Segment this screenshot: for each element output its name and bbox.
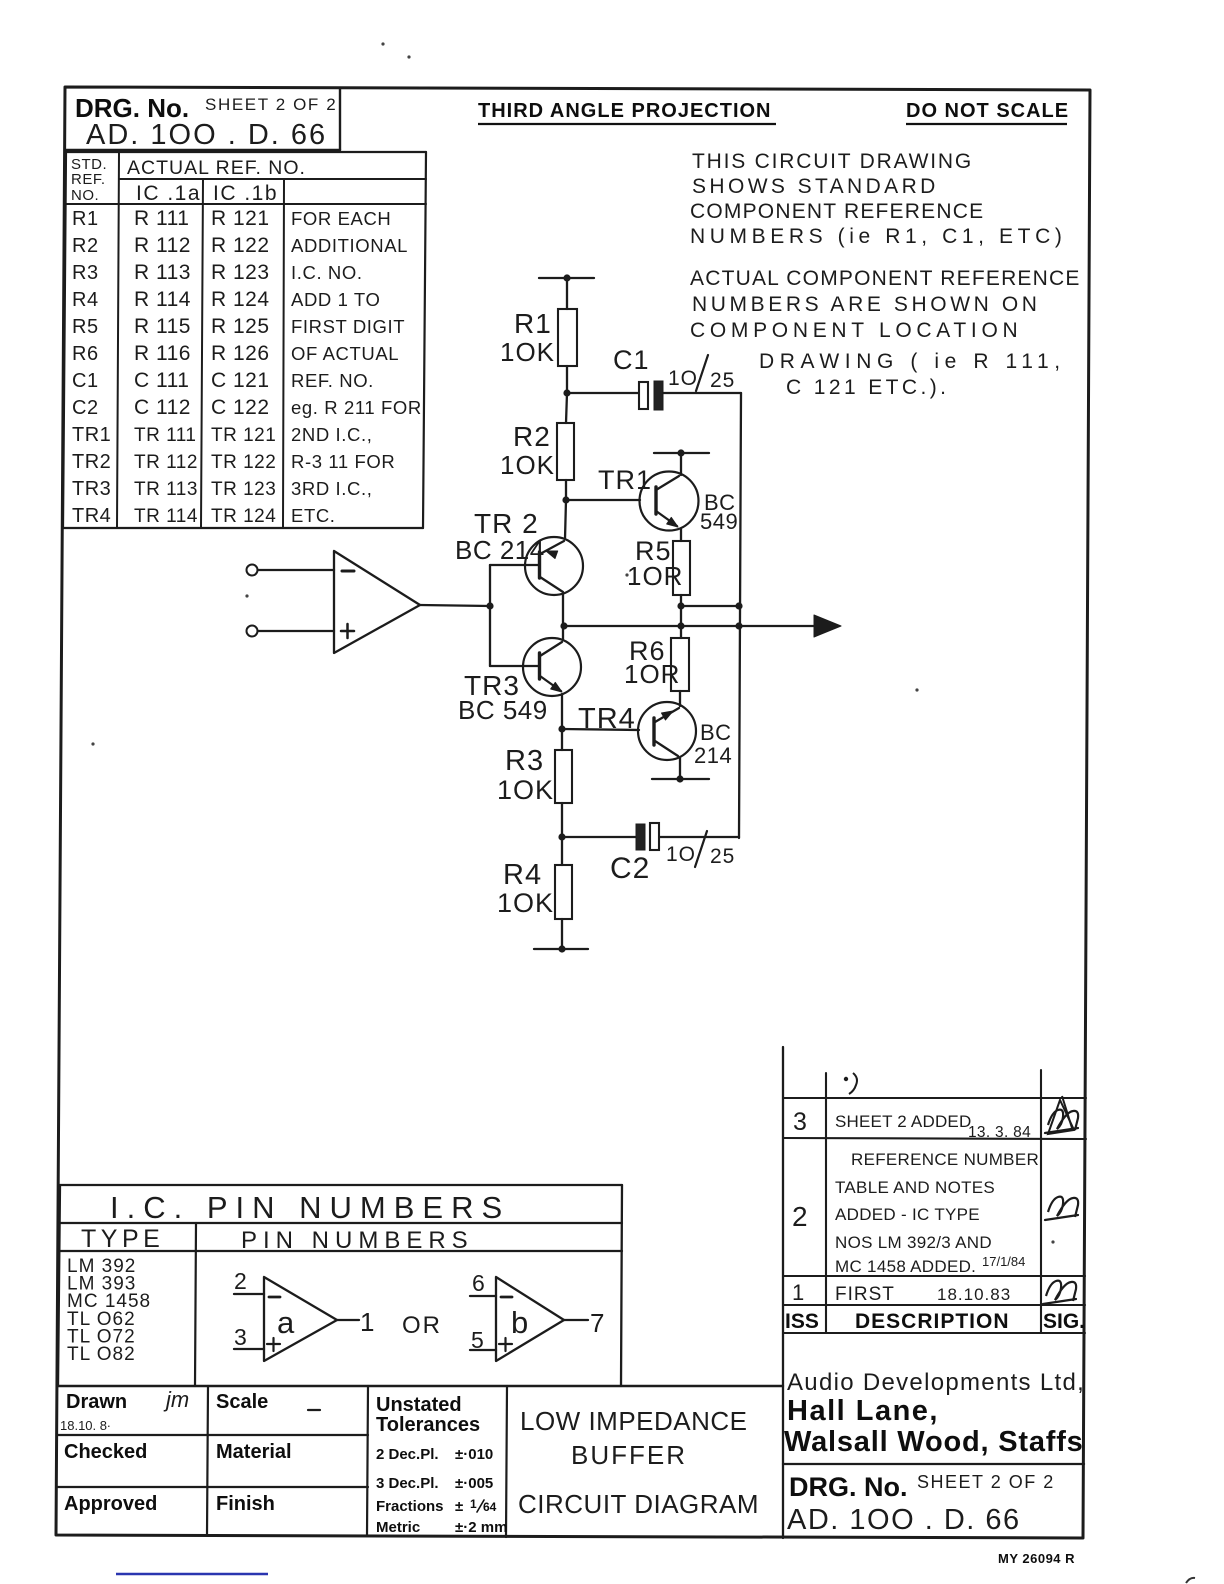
svg-text:SHEET 2 OF 2: SHEET 2 OF 2 — [205, 95, 337, 114]
svg-text:R 113: R 113 — [134, 261, 191, 284]
svg-text:R5: R5 — [72, 316, 99, 338]
svg-text:SHOWS STANDARD: SHOWS STANDARD — [692, 175, 939, 198]
svg-text:±·010: ±·010 — [455, 1446, 493, 1463]
svg-text:549: 549 — [700, 509, 738, 534]
svg-text:18.10. 8·: 18.10. 8· — [60, 1418, 111, 1433]
svg-text:ADDED - IC TYPE: ADDED - IC TYPE — [835, 1205, 980, 1224]
svg-text:R4: R4 — [72, 289, 99, 311]
svg-text:±: ± — [455, 1498, 463, 1515]
svg-text:R 124: R 124 — [211, 288, 270, 311]
svg-text:b: b — [511, 1305, 528, 1340]
svg-text:C 121: C 121 — [211, 369, 270, 392]
svg-text:R 112: R 112 — [134, 234, 191, 257]
svg-text:FIRST: FIRST — [835, 1284, 895, 1305]
svg-text:SHEET 2 OF 2: SHEET 2 OF 2 — [917, 1472, 1055, 1492]
svg-text:25: 25 — [710, 369, 735, 392]
svg-text:1O: 1O — [668, 367, 698, 390]
svg-text:1: 1 — [792, 1280, 804, 1305]
svg-text:C2: C2 — [610, 852, 650, 885]
svg-text:1O: 1O — [666, 843, 696, 866]
svg-text:1OK: 1OK — [497, 775, 554, 805]
svg-text:NUMBERS (ie R1, C1, ETC): NUMBERS (ie R1, C1, ETC) — [690, 225, 1066, 248]
svg-text:NOS LM 392/3 AND: NOS LM 392/3 AND — [835, 1233, 992, 1252]
svg-text:214: 214 — [694, 743, 732, 768]
svg-text:1OR: 1OR — [627, 561, 683, 591]
svg-text:REF. NO.: REF. NO. — [291, 370, 374, 391]
svg-text:R 125: R 125 — [211, 315, 270, 338]
svg-text:R 121: R 121 — [211, 207, 270, 230]
svg-text:TR1: TR1 — [598, 465, 652, 495]
svg-text:R 123: R 123 — [211, 261, 270, 284]
svg-text:1OK: 1OK — [500, 450, 555, 480]
svg-text:R-3 11 FOR: R-3 11 FOR — [291, 451, 395, 472]
svg-text:IC .1a: IC .1a — [136, 182, 201, 205]
svg-text:PIN NUMBERS: PIN NUMBERS — [241, 1227, 474, 1254]
svg-text:OR: OR — [402, 1312, 442, 1339]
svg-text:BC 549: BC 549 — [458, 695, 548, 725]
svg-text:TR 114: TR 114 — [134, 506, 198, 527]
svg-text:R3: R3 — [505, 745, 544, 777]
svg-text:2 Dec.Pl.: 2 Dec.Pl. — [376, 1446, 439, 1463]
svg-text:7: 7 — [590, 1308, 604, 1338]
svg-text:FOR EACH: FOR EACH — [291, 208, 391, 229]
svg-text:Hall Lane,: Hall Lane, — [787, 1395, 939, 1427]
svg-text:MY 26094 R: MY 26094 R — [998, 1551, 1075, 1566]
svg-text:R1: R1 — [72, 208, 99, 230]
svg-text:ADD 1 TO: ADD 1 TO — [291, 289, 380, 310]
svg-text:BC: BC — [700, 720, 732, 745]
svg-text:C 121 ETC.).: C 121 ETC.). — [786, 376, 949, 399]
svg-text:CIRCUIT DIAGRAM: CIRCUIT DIAGRAM — [518, 1489, 759, 1519]
svg-text:R 116: R 116 — [134, 342, 191, 365]
svg-text:I.C. NO.: I.C. NO. — [291, 262, 363, 283]
svg-text:TR 112: TR 112 — [134, 452, 198, 473]
svg-text:ADDITIONAL: ADDITIONAL — [291, 235, 408, 256]
svg-text:17/1/84: 17/1/84 — [982, 1254, 1025, 1269]
svg-text:ACTUAL REF. NO.: ACTUAL REF. NO. — [127, 157, 306, 179]
svg-text:Metric: Metric — [376, 1519, 420, 1536]
svg-text:25: 25 — [710, 845, 735, 868]
svg-text:3RD I.C.,: 3RD I.C., — [291, 478, 372, 499]
svg-text:OF ACTUAL: OF ACTUAL — [291, 343, 399, 364]
svg-text:Drawn: Drawn — [66, 1391, 127, 1413]
svg-text:3 Dec.Pl.: 3 Dec.Pl. — [376, 1475, 439, 1492]
svg-text:SIG.: SIG. — [1043, 1310, 1085, 1333]
svg-text:TR 111: TR 111 — [134, 425, 197, 446]
svg-text:AD. 1OO . D. 66: AD. 1OO . D. 66 — [86, 119, 327, 151]
svg-text:C 122: C 122 — [211, 396, 270, 419]
svg-text:R 111: R 111 — [134, 207, 189, 230]
svg-text:TR4: TR4 — [578, 703, 636, 735]
svg-text:TR2: TR2 — [72, 451, 111, 473]
svg-text:5: 5 — [471, 1327, 484, 1353]
svg-text:Finish: Finish — [216, 1493, 275, 1515]
svg-text:IC .1b: IC .1b — [213, 182, 278, 205]
svg-text:1OK: 1OK — [497, 888, 554, 918]
svg-text:1OR: 1OR — [624, 659, 680, 689]
svg-text:Unstated: Unstated — [376, 1394, 462, 1416]
svg-text:SHEET 2 ADDED: SHEET 2 ADDED — [835, 1112, 971, 1131]
svg-text:C 111: C 111 — [134, 369, 189, 392]
svg-text:Audio Developments Ltd,: Audio Developments Ltd, — [787, 1369, 1085, 1396]
svg-text:18.10.83: 18.10.83 — [937, 1285, 1011, 1304]
svg-text:a: a — [277, 1305, 295, 1340]
svg-text:R3: R3 — [72, 262, 99, 284]
svg-text:C2: C2 — [72, 397, 99, 419]
svg-text:ISS: ISS — [785, 1310, 819, 1333]
svg-text:DESCRIPTION: DESCRIPTION — [855, 1310, 1010, 1333]
svg-text:R 122: R 122 — [211, 234, 270, 257]
svg-text:BC 214: BC 214 — [455, 535, 545, 565]
svg-text:COMPONENT REFERENCE: COMPONENT REFERENCE — [690, 200, 984, 223]
svg-text:AD. 1OO . D. 66: AD. 1OO . D. 66 — [787, 1504, 1021, 1536]
svg-text:Walsall Wood, Staffs: Walsall Wood, Staffs — [784, 1426, 1084, 1458]
svg-text:64: 64 — [483, 1500, 497, 1514]
svg-text:1OK: 1OK — [500, 337, 555, 367]
svg-text:TL O82: TL O82 — [67, 1344, 136, 1365]
svg-text:jm: jm — [163, 1387, 189, 1412]
svg-text:THIS CIRCUIT DRAWING: THIS CIRCUIT DRAWING — [692, 150, 973, 173]
svg-text:MC 1458 ADDED.: MC 1458 ADDED. — [835, 1257, 976, 1276]
svg-text:ACTUAL COMPONENT REFERENCE: ACTUAL COMPONENT REFERENCE — [690, 267, 1081, 290]
svg-text:R 114: R 114 — [134, 288, 191, 311]
svg-text:R 126: R 126 — [211, 342, 270, 365]
svg-text:DO NOT SCALE: DO NOT SCALE — [906, 100, 1069, 122]
svg-text:±·005: ±·005 — [455, 1475, 493, 1492]
svg-text:DRAWING ( ie R 111,: DRAWING ( ie R 111, — [759, 350, 1066, 373]
svg-text:NUMBERS ARE SHOWN ON: NUMBERS ARE SHOWN ON — [692, 293, 1041, 316]
svg-text:R2: R2 — [72, 235, 99, 257]
svg-text:R1: R1 — [514, 308, 552, 339]
svg-text:R4: R4 — [503, 859, 542, 891]
svg-text:1: 1 — [360, 1307, 374, 1337]
svg-text:TR 121: TR 121 — [211, 425, 276, 446]
svg-text:Checked: Checked — [64, 1441, 147, 1463]
svg-text:Fractions: Fractions — [376, 1498, 444, 1515]
svg-text:ETC.: ETC. — [291, 505, 336, 526]
svg-text:TR 123: TR 123 — [211, 479, 276, 500]
svg-text:±·2 mm: ±·2 mm — [455, 1519, 507, 1536]
svg-text:R6: R6 — [72, 343, 99, 365]
svg-text:REFERENCE NUMBER: REFERENCE NUMBER — [851, 1150, 1039, 1169]
svg-text:R 115: R 115 — [134, 315, 191, 338]
svg-text:Tolerances: Tolerances — [376, 1414, 480, 1436]
svg-text:TABLE AND NOTES: TABLE AND NOTES — [835, 1178, 995, 1197]
svg-text:Scale: Scale — [216, 1391, 268, 1413]
svg-text:2: 2 — [792, 1201, 808, 1232]
svg-text:NO.: NO. — [71, 187, 99, 204]
svg-text:TR 124: TR 124 — [211, 506, 276, 527]
svg-text:eg. R 211 FOR: eg. R 211 FOR — [291, 397, 422, 418]
svg-text:C1: C1 — [72, 370, 99, 392]
svg-text:TYPE: TYPE — [81, 1225, 164, 1253]
svg-text:Material: Material — [216, 1441, 292, 1463]
svg-text:TR 113: TR 113 — [134, 479, 198, 500]
svg-text:13. 3. 84: 13. 3. 84 — [968, 1124, 1031, 1141]
svg-text:C1: C1 — [613, 345, 650, 375]
svg-text:REF.: REF. — [71, 171, 106, 188]
svg-text:TR 122: TR 122 — [211, 452, 276, 473]
svg-text:FIRST DIGIT: FIRST DIGIT — [291, 316, 405, 337]
svg-text:3: 3 — [234, 1324, 247, 1350]
svg-text:R2: R2 — [513, 421, 551, 452]
svg-text:TR3: TR3 — [72, 478, 111, 500]
svg-text:3: 3 — [793, 1108, 807, 1136]
svg-text:2: 2 — [234, 1268, 247, 1294]
svg-text:BUFFER: BUFFER — [571, 1440, 687, 1470]
svg-text:6: 6 — [472, 1270, 485, 1296]
svg-text:2ND I.C.,: 2ND I.C., — [291, 424, 372, 445]
svg-text:TR4: TR4 — [72, 505, 111, 527]
svg-text:TR1: TR1 — [72, 424, 111, 446]
svg-text:I.C. PIN NUMBERS: I.C. PIN NUMBERS — [110, 1190, 510, 1225]
svg-text:1: 1 — [470, 1497, 477, 1511]
svg-text:COMPONENT LOCATION: COMPONENT LOCATION — [690, 319, 1022, 342]
svg-text:THIRD ANGLE PROJECTION: THIRD ANGLE PROJECTION — [478, 100, 772, 122]
svg-text:Approved: Approved — [64, 1493, 157, 1515]
svg-text:C 112: C 112 — [134, 396, 191, 419]
svg-text:DRG. No.: DRG. No. — [789, 1472, 908, 1502]
svg-text:LOW IMPEDANCE: LOW IMPEDANCE — [520, 1406, 748, 1436]
